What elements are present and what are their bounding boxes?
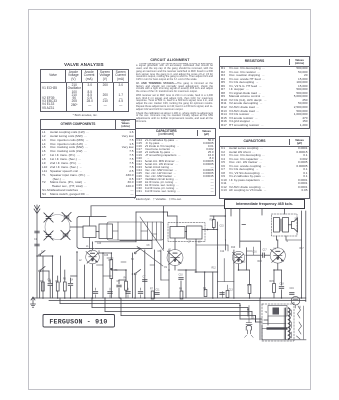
svg-text:R6: R6	[124, 278, 128, 280]
svg-text:C12: C12	[220, 251, 225, 253]
svg-text:C15: C15	[220, 226, 225, 228]
svg-text:R14: R14	[247, 285, 252, 287]
svg-text:C19: C19	[290, 288, 295, 290]
svg-text:T1: T1	[286, 241, 289, 243]
svg-text:R15: R15	[270, 281, 275, 283]
svg-text:C3: C3	[48, 280, 52, 282]
svg-text:L7: L7	[188, 242, 191, 244]
svg-text:S2: S2	[131, 259, 135, 261]
svg-text:C26: C26	[104, 255, 109, 257]
svg-text:R8: R8	[179, 289, 183, 291]
svg-text:C9: C9	[164, 267, 168, 269]
svg-text:C4: C4	[70, 280, 74, 282]
svg-text:C7: C7	[143, 277, 147, 279]
svg-text:C18: C18	[280, 284, 285, 286]
svg-text:L8: L8	[198, 242, 201, 244]
svg-text:R13: R13	[258, 261, 263, 263]
svg-text:R10: R10	[231, 247, 236, 249]
svg-text:R17: R17	[300, 248, 305, 250]
svg-text:FERGUSON - 910: FERGUSON - 910	[49, 319, 107, 326]
svg-text:V1: V1	[89, 251, 93, 253]
svg-text:V3: V3	[243, 262, 247, 264]
svg-text:C23: C23	[97, 243, 102, 245]
svg-text:C10: C10	[179, 275, 184, 277]
svg-text:C5: C5	[117, 281, 121, 283]
svg-text:R7: R7	[150, 289, 154, 291]
svg-text:R12: R12	[212, 268, 217, 270]
svg-text:S1: S1	[41, 252, 45, 254]
svg-text:V4: V4	[274, 249, 278, 251]
svg-text:R3: R3	[63, 279, 67, 281]
svg-text:T2: T2	[265, 312, 268, 314]
svg-text:R4: R4	[109, 260, 113, 262]
svg-text:C13: C13	[229, 290, 234, 292]
svg-text:C11: C11	[156, 290, 161, 292]
svg-text:C17: C17	[263, 250, 268, 252]
svg-text:C16: C16	[253, 252, 258, 254]
svg-text:L1: L1	[86, 246, 89, 248]
svg-text:C8: C8	[147, 245, 151, 247]
svg-text:L2: L2	[79, 260, 82, 262]
